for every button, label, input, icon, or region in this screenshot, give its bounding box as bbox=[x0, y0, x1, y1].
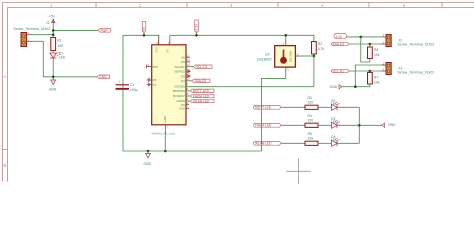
svg-text:MOSI/D7: MOSI/D7 bbox=[173, 94, 185, 98]
svg-text:GND: GND bbox=[388, 123, 396, 127]
svg-text:C1: C1 bbox=[130, 83, 134, 87]
svg-text:D4: D4 bbox=[181, 79, 185, 83]
svg-text:WLAN-LED: WLAN-LED bbox=[255, 142, 272, 146]
pin D6 + label MQTT-LED bbox=[186, 90, 190, 92]
svg-text:Screw_Terminal_01x02: Screw_Terminal_01x02 bbox=[14, 27, 51, 31]
LED D2 bbox=[331, 99, 340, 111]
svg-text:D0: D0 bbox=[181, 60, 185, 64]
node junction bbox=[369, 70, 372, 73]
wire J1 pin2 bbox=[30, 34, 53, 36]
svg-text:WeMos_D1_mini: WeMos_D1_mini bbox=[152, 131, 176, 135]
pin TX left bbox=[147, 84, 152, 86]
node junction bbox=[164, 150, 167, 153]
pin SDA/D2 bbox=[186, 70, 190, 72]
svg-text:R5: R5 bbox=[308, 132, 312, 136]
wire label to R5 bbox=[281, 142, 305, 144]
svg-text:DS18B20: DS18B20 bbox=[257, 58, 272, 62]
resistor R7 bbox=[368, 73, 380, 85]
wire U2 gnd to bus bbox=[262, 72, 286, 152]
pin SCL/D1 bbox=[186, 66, 194, 68]
svg-text:Screw_Terminal_01x02: Screw_Terminal_01x02 bbox=[398, 42, 435, 46]
power label +5V vertical bbox=[142, 22, 146, 34]
pin RST left bbox=[147, 66, 152, 68]
ground symbol bbox=[49, 80, 57, 92]
svg-text:LED: LED bbox=[331, 120, 338, 124]
node junction bbox=[195, 34, 198, 37]
svg-text:FHEM-LED: FHEM-LED bbox=[255, 124, 272, 128]
pin D8 + label WLAN-LED bbox=[186, 100, 190, 102]
svg-text:+5V: +5V bbox=[142, 26, 146, 33]
pin U2 GND bottom bbox=[285, 67, 287, 71]
wire +5V vertical chain bbox=[52, 26, 54, 38]
svg-text:+: + bbox=[119, 80, 121, 84]
pin U2 DQ right bbox=[295, 55, 300, 57]
svg-text:3.3V: 3.3V bbox=[336, 35, 343, 39]
svg-text:J1: J1 bbox=[46, 21, 50, 25]
node junction bbox=[285, 34, 288, 37]
svg-text:SCK/D5: SCK/D5 bbox=[174, 85, 185, 89]
node junction bbox=[360, 36, 363, 39]
svg-text:150: 150 bbox=[57, 44, 63, 48]
wire R7 top bbox=[369, 71, 371, 73]
node junction bbox=[358, 124, 361, 127]
pin 5V top bbox=[169, 40, 171, 45]
svg-text:GND: GND bbox=[49, 88, 57, 92]
svg-text:4.7k: 4.7k bbox=[318, 47, 325, 51]
pin A0 bbox=[186, 56, 190, 58]
top rail +5V wire bbox=[123, 35, 159, 151]
resistor R1 bbox=[51, 38, 63, 51]
gnd bus wire bbox=[123, 150, 262, 152]
power label +3.3V vertical bbox=[195, 20, 199, 33]
wire cathode bus bbox=[358, 107, 360, 143]
svg-text:SCL-D1: SCL-D1 bbox=[333, 69, 345, 73]
pin RX left bbox=[147, 79, 152, 81]
resistor R3 bbox=[305, 96, 318, 110]
svg-text:100µ: 100µ bbox=[130, 88, 138, 92]
LED row 3: label WLAN-LED bbox=[253, 141, 281, 145]
power +5V bbox=[49, 15, 56, 26]
wire SCL to J3 pin2 bbox=[349, 70, 382, 72]
pin 3V3 top bbox=[158, 40, 160, 45]
wire label to R4 bbox=[281, 124, 305, 126]
svg-text:R7: R7 bbox=[374, 76, 378, 80]
svg-text:U2: U2 bbox=[265, 53, 269, 57]
wire R3 to D2 bbox=[318, 106, 331, 108]
wire D3 to bus bbox=[337, 124, 359, 126]
node junction bbox=[52, 76, 55, 79]
wire to PWR label bbox=[53, 29, 98, 31]
svg-text:SCL-D1: SCL-D1 bbox=[196, 65, 208, 69]
wire R5 to D4 bbox=[318, 142, 331, 144]
LED D1 bbox=[50, 52, 66, 60]
label SCL-D1 bbox=[194, 65, 213, 69]
label SDA-D2 right block bbox=[331, 42, 349, 46]
pin D7 + label FHEM-LED bbox=[186, 95, 190, 97]
svg-text:D10: D10 bbox=[179, 107, 185, 111]
origin crosshair bbox=[286, 158, 311, 184]
svg-text:220: 220 bbox=[308, 100, 314, 104]
svg-text:220: 220 bbox=[308, 136, 314, 140]
svg-text:SDA/D2: SDA/D2 bbox=[174, 70, 185, 74]
LED D4 bbox=[331, 135, 340, 147]
node junction bbox=[52, 33, 55, 36]
svg-text:5V: 5V bbox=[166, 49, 170, 53]
LED row 2: label FHEM-LED bbox=[253, 123, 281, 127]
svg-text:GND: GND bbox=[99, 75, 107, 79]
svg-text:A0: A0 bbox=[181, 55, 185, 59]
svg-text:10k: 10k bbox=[374, 53, 380, 57]
power label GND right arrow bbox=[382, 123, 396, 127]
svg-text:3V3: 3V3 bbox=[155, 47, 159, 53]
screw terminal J2 bbox=[382, 33, 435, 46]
svg-text:MQTT-LED: MQTT-LED bbox=[193, 89, 210, 93]
svg-text:SCL/D1: SCL/D1 bbox=[175, 65, 186, 69]
svg-text:SDA-D2: SDA-D2 bbox=[333, 42, 345, 46]
pin D9 stub bbox=[186, 104, 189, 106]
svg-text:+5V: +5V bbox=[49, 15, 56, 19]
resistor R4 bbox=[305, 114, 318, 128]
svg-text:DQ VDD: DQ VDD bbox=[289, 51, 293, 62]
node junction bbox=[143, 34, 146, 37]
svg-text:PWR: PWR bbox=[100, 29, 108, 33]
MCU U1 WeMos D1 mini bbox=[152, 45, 187, 136]
wire gnd vertical to J3 pin1 bbox=[355, 65, 384, 87]
svg-text:LED: LED bbox=[331, 138, 338, 142]
wire R1 to D1 bbox=[52, 51, 54, 54]
svg-text:B: B bbox=[3, 163, 6, 168]
sheet border frame bbox=[3, 3, 474, 182]
LED row 1: label MQTT-LED bbox=[253, 105, 281, 109]
svg-text:A: A bbox=[3, 74, 6, 79]
svg-text:LED: LED bbox=[331, 102, 338, 106]
wire R7 bottom to gnd bbox=[342, 84, 370, 87]
svg-text:GND: GND bbox=[163, 116, 167, 122]
node junction bbox=[313, 55, 316, 58]
svg-text:LED: LED bbox=[59, 56, 66, 60]
wire R2 bottom bbox=[313, 54, 315, 56]
wire D4 to bus bbox=[337, 142, 359, 144]
wire 3.3V to J2 pin1 bbox=[347, 36, 382, 38]
wire to GND label bbox=[53, 76, 97, 78]
pin D10 stub bbox=[186, 107, 189, 109]
screw terminal J3 bbox=[382, 61, 435, 74]
label SCL-D1 right block bbox=[331, 69, 349, 73]
resistor R2 bbox=[312, 42, 325, 55]
power label GND left arrow bbox=[330, 85, 342, 90]
wire SDA to J2 pin2 bbox=[349, 43, 382, 45]
svg-text:R3: R3 bbox=[308, 96, 312, 100]
wire R4 to D3 bbox=[318, 124, 331, 126]
pin U2 VDD top bbox=[285, 41, 287, 46]
wire MCU gnd down bbox=[164, 130, 166, 152]
svg-text:WLAN-LED: WLAN-LED bbox=[193, 99, 210, 103]
resistor R6 bbox=[368, 47, 380, 59]
ground symbol mid bbox=[144, 154, 152, 167]
svg-text:R6: R6 bbox=[374, 48, 378, 52]
pin D5 long wire bbox=[186, 86, 314, 88]
pin D4 + label SDA-D2 bbox=[186, 80, 192, 82]
screw terminal J1 bbox=[14, 21, 51, 46]
wire D2 to bus bbox=[337, 106, 359, 108]
pin GND bottom bbox=[164, 125, 166, 130]
svg-text:GND: GND bbox=[144, 162, 152, 166]
wire label to R3 bbox=[281, 106, 305, 108]
svg-text:Screw_Terminal_01x02: Screw_Terminal_01x02 bbox=[398, 70, 435, 74]
node junction bbox=[369, 43, 372, 46]
label 3.3V right block bbox=[334, 34, 347, 40]
svg-text:R4: R4 bbox=[308, 114, 312, 118]
node junction bbox=[147, 150, 150, 153]
svg-text:RX: RX bbox=[153, 78, 157, 82]
node junction bbox=[354, 85, 357, 88]
wire DQ down-left to MCU bbox=[313, 56, 315, 87]
svg-text:RST: RST bbox=[153, 65, 159, 69]
LED D3 bbox=[331, 117, 340, 129]
svg-text:220: 220 bbox=[308, 118, 314, 122]
svg-text:MISO/D6: MISO/D6 bbox=[173, 89, 185, 93]
svg-text:GND: GND bbox=[330, 85, 338, 89]
svg-text:TX: TX bbox=[153, 83, 157, 87]
wire DQ to R2 bbox=[300, 55, 314, 57]
svg-text:10k: 10k bbox=[374, 81, 380, 85]
wire bus to GND bbox=[359, 124, 382, 126]
svg-text:SDA-D2: SDA-D2 bbox=[195, 79, 207, 83]
top rail 3V3 wire bbox=[170, 35, 314, 41]
svg-text:+3.3V: +3.3V bbox=[195, 23, 199, 32]
svg-text:MQTT-LED: MQTT-LED bbox=[255, 106, 272, 110]
label PWR bbox=[98, 29, 111, 33]
wire R6 top bbox=[369, 44, 371, 47]
node junction bbox=[52, 29, 55, 32]
pin D3 bbox=[186, 75, 190, 77]
wire R6 bottom to 3V3 drop bbox=[361, 37, 370, 62]
capacitor C1 bbox=[116, 80, 138, 92]
svg-text:D3: D3 bbox=[181, 74, 185, 78]
resistor R5 bbox=[305, 132, 318, 146]
label GND right bbox=[97, 75, 110, 79]
pin D0 bbox=[186, 61, 190, 63]
svg-text:R2: R2 bbox=[318, 42, 322, 46]
svg-text:R1: R1 bbox=[57, 39, 61, 43]
wire J1 pin1 down-around bbox=[30, 41, 53, 77]
svg-text:FHEM-LED: FHEM-LED bbox=[193, 94, 210, 98]
temperature sensor U2 DS18B20 bbox=[257, 46, 295, 68]
wire D1 to gnd node bbox=[52, 58, 54, 80]
